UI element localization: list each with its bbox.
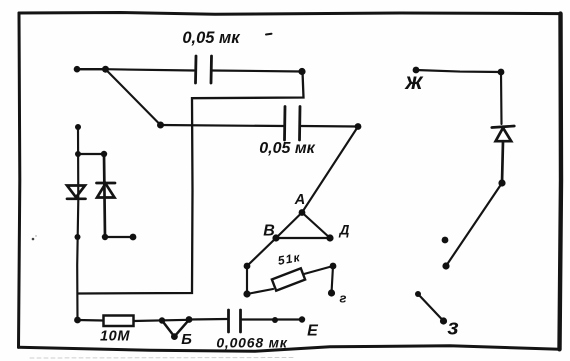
diode D2: [97, 154, 116, 237]
node D: [326, 234, 333, 241]
wire top-left stub: [77, 68, 106, 70]
wire: [302, 125, 359, 128]
node: [130, 234, 137, 241]
node: [186, 316, 193, 323]
svg-text:51к: 51к: [277, 250, 302, 268]
node: [244, 263, 251, 270]
node: [442, 237, 449, 244]
node Zh: [413, 67, 420, 74]
capacitor C3 0,0068 mk plates: [229, 310, 241, 332]
wire triangle B-D: [276, 237, 330, 239]
node: [442, 262, 449, 269]
wire diagonal: [106, 69, 161, 125]
svg-text:Б: Б: [181, 331, 192, 348]
svg-text:Д: Д: [339, 223, 350, 238]
wire triangle A-D: [302, 213, 330, 239]
resistor R2 51k body: [272, 268, 305, 290]
wire left pad vertical: [246, 266, 248, 294]
node Z: [440, 317, 447, 324]
wire middle: [160, 125, 284, 126]
node: [159, 317, 165, 323]
wire branch: [78, 153, 104, 155]
wire Zh top right: [416, 70, 501, 72]
faint scan line: [30, 357, 295, 360]
wire left vertical: [77, 127, 78, 320]
node: [75, 151, 81, 157]
svg-text:0,05 мк: 0,05 мк: [259, 140, 315, 157]
wire right vertical G: [332, 266, 334, 293]
wire top: [77, 69, 194, 70]
node E: [299, 316, 305, 322]
wire: [500, 72, 503, 124]
node: [102, 66, 109, 73]
node: [102, 234, 108, 240]
letter labels: [181, 68, 458, 348]
svg-text:0,0068 мк: 0,0068 мк: [216, 335, 287, 351]
speck: [32, 235, 37, 240]
wire to resistor: [247, 289, 273, 294]
wire branch stub: [105, 236, 133, 238]
node: [243, 290, 250, 297]
wire short Z: [418, 294, 444, 321]
node A: [299, 209, 306, 216]
node: [498, 69, 505, 76]
node: [498, 179, 505, 186]
svg-text:0,05 мк: 0,05 мк: [182, 29, 241, 47]
node: [74, 66, 81, 73]
node: [157, 122, 164, 129]
node B: [272, 234, 279, 241]
capacitor C1 0,05 mk plates: [196, 56, 212, 83]
svg-text:г: г: [340, 291, 347, 306]
wire: [134, 320, 190, 321]
resistor R1 10M body: [104, 316, 134, 327]
svg-text:ж: ж: [404, 68, 424, 94]
stray dash: [266, 33, 272, 36]
wire bottom: [78, 319, 104, 322]
wire: [213, 71, 303, 72]
wire from resistor: [304, 266, 333, 274]
svg-text:Е: Е: [307, 323, 319, 340]
wire main diagonal: [247, 127, 358, 267]
diode D1: [67, 186, 86, 199]
node G: [328, 289, 335, 296]
node: [101, 151, 107, 157]
node: [74, 317, 81, 324]
wire diagonal right: [446, 183, 502, 266]
node: [355, 123, 362, 130]
node B contact: [171, 333, 178, 340]
node: [75, 124, 81, 130]
capacitor C2 0,05 mk plates: [285, 107, 301, 141]
bus wire: [79, 72, 304, 294]
svg-text:з: з: [447, 315, 458, 340]
svg-text:В: В: [263, 223, 275, 240]
wire: [189, 318, 227, 321]
contact B v-shape: [162, 320, 189, 337]
node: [272, 317, 278, 323]
diode D3: [492, 126, 515, 183]
node: [75, 234, 81, 240]
node: [330, 263, 337, 270]
wire: [242, 318, 302, 320]
svg-text:А: А: [294, 192, 305, 208]
node: [298, 68, 305, 75]
node: [415, 291, 421, 297]
svg-text:10М: 10М: [100, 329, 130, 345]
